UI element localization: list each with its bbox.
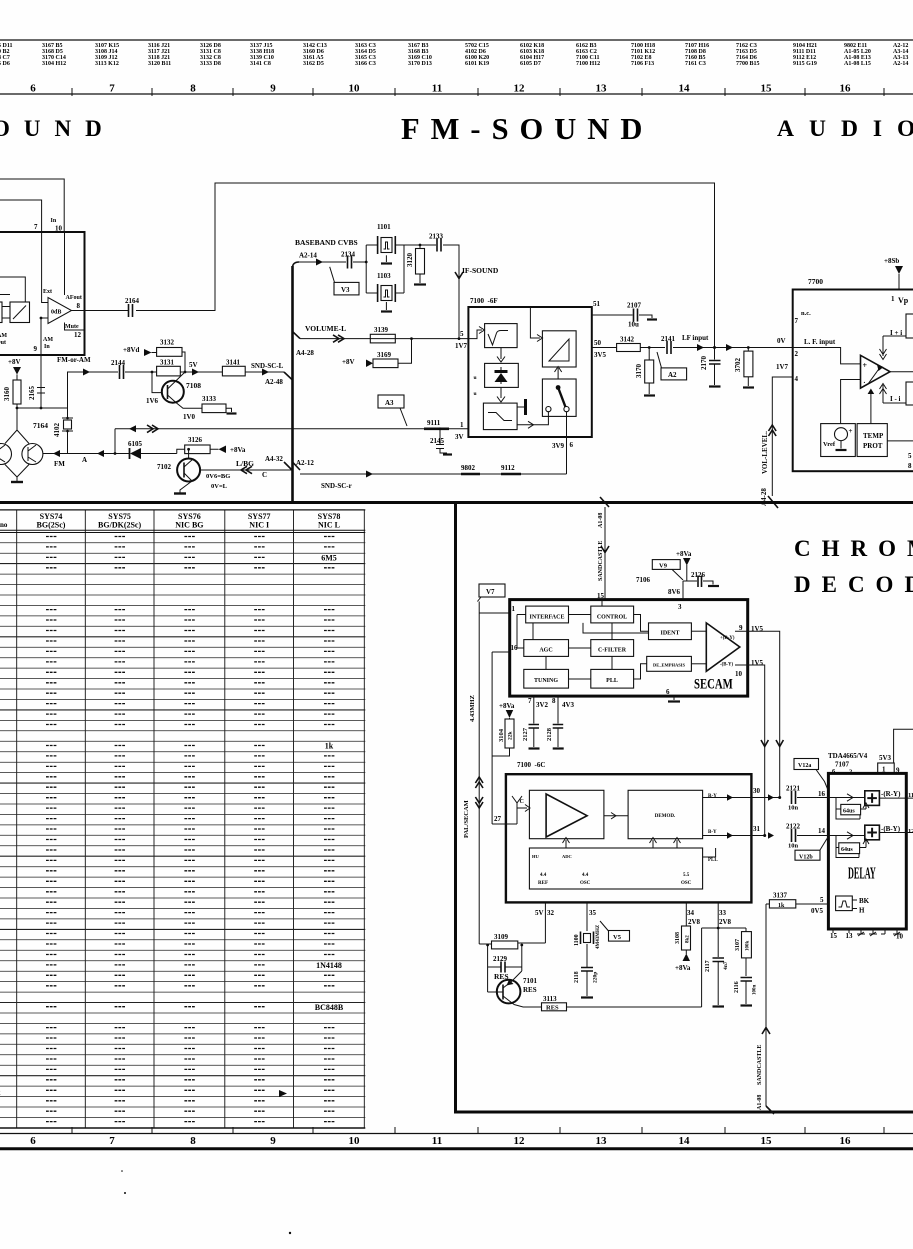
svg-text:DECODER: DECODER [794,572,913,597]
svg-text:7: 7 [34,223,38,231]
Mute pin 12 [65,323,85,331]
IC 7100 -6F sound processor [468,307,591,437]
svg-text:5: 5 [460,330,464,338]
svg-text:A2-48: A2-48 [265,378,283,386]
svg-text:3108: 3108 [675,932,681,944]
svg-text:2170: 2170 [700,356,708,371]
demod block [628,790,703,838]
bottom ruler [0,1127,913,1149]
flag V9 [652,560,680,570]
svg-text:+8Va: +8Va [675,964,691,972]
svg-text:6: 6 [666,688,670,696]
svg-text:11: 11 [432,83,442,95]
svg-text:100n: 100n [753,985,758,996]
chroma amp block [529,790,604,838]
svg-text:4: 4 [795,375,799,383]
svg-text:V9: V9 [659,563,668,570]
svg-text:3104 H12: 3104 H12 [42,61,66,67]
svg-text:2145: 2145 [430,437,445,445]
svg-text:50: 50 [594,339,602,347]
svg-text:VOL-LEVEL.: VOL-LEVEL. [761,431,769,474]
crystal 4102 [67,408,69,454]
svg-text:7102: 7102 [157,463,172,471]
wire to SECAM pin 1 [479,612,510,614]
svg-text:3169: 3169 [377,351,392,359]
svg-text:10: 10 [349,1135,361,1147]
switch block [542,379,576,416]
svg-text:V5: V5 [613,934,622,941]
svg-text:A2-14: A2-14 [299,252,317,260]
resistor 3170 [648,348,650,361]
resistor 3120 [419,245,421,283]
svg-text:8: 8 [190,83,196,95]
svg-text:11: 11 [432,1135,442,1147]
svg-text:15: 15 [761,1135,773,1147]
svg-text:SANDCASTLE: SANDCASTLE [598,541,604,581]
svg-text:HU: HU [532,854,540,859]
signal bus A2/A4 [291,266,294,502]
svg-text:3109: 3109 [494,933,509,941]
svg-text:RES: RES [523,986,537,994]
svg-text:L/BG: L/BG [236,459,254,468]
svg-text:4n7: 4n7 [723,961,729,970]
IC 7100 -6C chroma processor [506,774,752,902]
svg-text:12: 12 [514,83,526,95]
node junction to 9111 line [114,429,116,454]
svg-text:Vref: Vref [823,441,836,448]
svg-text:DEMOD.: DEMOD. [655,814,676,819]
svg-text:3V9: 3V9 [552,442,565,450]
TUNING block [524,669,569,688]
svg-text:+8V: +8V [342,358,355,366]
INTERFACE block [526,606,569,623]
svg-text:3170 D13: 3170 D13 [408,61,432,67]
svg-text:+8Sb: +8Sb [884,257,899,265]
svg-text:3162 D5: 3162 D5 [303,61,324,67]
svg-text:SECAM: SECAM [694,676,733,692]
wire from slope block top [0,277,25,302]
svg-text:SND-SC-L: SND-SC-L [251,362,284,370]
svg-text:A2: A2 [668,371,677,379]
svg-text:12: 12 [74,331,82,339]
IC SECAM decoder [510,600,748,697]
svg-text:DE_EMPHASIS: DE_EMPHASIS [653,663,686,668]
de-emphasis block [500,387,502,398]
flag V5 [609,931,630,942]
AM In input wire pin 9 [41,318,48,408]
svg-text:OSC: OSC [580,881,591,886]
svg-text:BC848B: BC848B [315,1003,344,1012]
section divider line [0,501,913,504]
svg-text:FM-or-AM: FM-or-AM [57,356,91,364]
op-amp 0dB triangle [48,298,72,324]
svg-text:V3: V3 [341,286,350,294]
svg-text:7: 7 [795,317,799,325]
svg-text:FM: FM [54,460,65,468]
svg-text:3141: 3141 [226,359,241,367]
svg-text:R-Y: R-Y [708,794,717,799]
svg-text:27: 27 [494,815,502,823]
svg-text:+8Va: +8Va [676,550,692,558]
IC 7700 audio amplifier [793,290,913,472]
VOL-LEVEL line A4-28 [772,377,792,496]
svg-text:no: no [0,521,8,529]
svg-text:10: 10 [349,83,361,95]
IDENT block [649,623,692,640]
svg-text:TDA4665/V4: TDA4665/V4 [828,752,868,760]
wire to 2133 [404,244,436,246]
SECAM output amp [706,623,740,671]
CONTROL block [591,606,634,623]
demod diode block [500,348,502,359]
C-FILTER block [591,640,634,657]
svg-text:PAL/SECAM: PAL/SECAM [463,800,470,838]
svg-text:7161 C3: 7161 C3 [685,61,706,67]
svg-text:A2-12: A2-12 [296,459,314,467]
svg-text:A1-08: A1-08 [598,513,604,528]
svg-text:6M5: 6M5 [321,553,337,562]
svg-text:220p: 220p [593,972,599,983]
ref/osc block [529,848,702,889]
resistor 3107 100k [702,928,746,932]
svg-text:1k: 1k [325,742,334,751]
svg-text:1: 1 [891,295,895,303]
svg-text:8: 8 [190,1135,196,1147]
svg-text:1V0: 1V0 [183,413,196,421]
chroma section border [454,503,913,1114]
svg-text:3170: 3170 [635,364,643,379]
wire from junction [68,372,119,408]
transistor 7101 RES [497,980,521,1004]
svg-text:OUND: OUND [0,116,116,141]
svg-text:7106 F13: 7106 F13 [631,61,654,67]
adder R-Y [828,797,864,799]
flag V12b [795,850,820,860]
svg-text:IF-SOUND: IF-SOUND [462,266,499,275]
svg-text:14: 14 [818,827,826,835]
svg-text:4V3: 4V3 [562,701,575,709]
svg-text:BK: BK [859,897,870,905]
svg-text:V12a: V12a [798,763,811,769]
svg-text:6105: 6105 [128,440,143,448]
svg-text:+8Va: +8Va [499,702,515,710]
svg-text:4M43MHZ: 4M43MHZ [596,924,601,949]
svg-text:4102: 4102 [53,423,61,438]
svg-text:7107: 7107 [835,761,850,769]
svg-text:8: 8 [77,302,81,310]
delay line 64us [841,804,861,814]
svg-text:RES: RES [546,1005,559,1012]
svg-text:6: 6 [30,83,36,95]
power +8Va [219,446,227,454]
svg-text:AFout: AFout [66,295,82,301]
svg-text:2107: 2107 [627,302,642,310]
svg-text:2141: 2141 [661,335,676,343]
svg-text:3139: 3139 [374,326,389,334]
svg-text:ADC: ADC [562,854,572,859]
svg-text:14: 14 [679,83,691,95]
svg-text:-(B-Y): -(B-Y) [720,663,733,668]
svg-text:9111: 9111 [427,419,441,427]
top feed wire [530,307,540,338]
wire 9111 line [115,428,468,430]
svg-text:13: 13 [596,83,608,95]
svg-text:12: 12 [514,1135,526,1147]
svg-text:I - i: I - i [890,395,901,403]
svg-text:1V7: 1V7 [455,342,468,350]
PLL block [591,669,634,688]
svg-text:3166 C3: 3166 C3 [355,61,376,67]
svg-text:REF: REF [538,881,548,886]
svg-text:10n: 10n [788,843,799,850]
svg-text:2165: 2165 [28,386,36,401]
capacitor 2165 [37,355,45,408]
svg-text:3126: 3126 [188,436,203,444]
svg-text:1: 1 [460,421,464,429]
svg-text:3120: 3120 [406,253,414,268]
ground of 7164 [11,481,23,483]
system comparison table [0,510,365,1128]
svg-text:FM-SOUND: FM-SOUND [401,112,653,146]
svg-text:-(R-Y): -(R-Y) [881,790,901,798]
TEMP PROT block [857,424,887,457]
internal Ext wire [42,232,48,303]
svg-text:3137: 3137 [773,892,788,900]
svg-text:0V: 0V [777,337,786,345]
svg-text:51: 51 [593,300,601,308]
svg-text:3104: 3104 [498,728,505,742]
svg-text:0V=L: 0V=L [211,483,228,490]
svg-text:BG(2Sc): BG(2Sc) [37,521,66,530]
svg-text:8: 8 [908,462,912,470]
svg-text:u: u [474,375,477,381]
svg-text:3702: 3702 [734,358,742,373]
svg-text:C: C [520,799,524,805]
link 9802 [461,473,480,476]
transistor 7108 [152,372,162,393]
svg-text:B-Y: B-Y [708,830,717,835]
component location index header [0,40,913,67]
svg-text:A1-08: A1-08 [757,1095,763,1110]
svg-text:-(B-Y): -(B-Y) [881,825,901,833]
svg-text:64us: 64us [841,847,853,853]
svg-text:3160: 3160 [3,387,11,402]
sandcastle line A1-08 [765,904,767,1106]
svg-text:5V: 5V [189,361,198,369]
svg-text:7: 7 [109,1135,115,1147]
svg-text:1V7: 1V7 [776,363,789,371]
svg-text:IDENT: IDENT [660,631,679,637]
svg-text:34: 34 [687,909,695,917]
svg-text:+: + [863,361,868,370]
svg-text:8k2: 8k2 [686,935,691,943]
svg-text:16: 16 [840,1135,852,1147]
bandpass block [485,324,517,348]
chroma input symbol [512,796,522,813]
svg-text:13: 13 [846,932,854,940]
svg-text:3132: 3132 [160,339,175,347]
svg-text:12: 12 [908,828,913,835]
svg-text:8V6: 8V6 [668,588,681,596]
capacitor 2170 [714,348,716,386]
IF-SOUND arrow [455,272,463,279]
svg-text:9112: 9112 [501,464,515,472]
svg-text:10u: 10u [628,321,639,329]
svg-text:9: 9 [270,83,276,95]
svg-text:AM: AM [43,337,53,343]
svg-text:2116: 2116 [734,981,740,993]
svg-text:C-FILTER: C-FILTER [598,648,627,654]
AGC block [524,640,569,657]
svg-text:10: 10 [735,670,743,678]
svg-text:5: 5 [908,452,912,460]
svg-text:4.4: 4.4 [540,873,547,878]
top ruler [0,83,913,97]
svg-text:PLL: PLL [606,678,618,684]
svg-text:14: 14 [679,1135,691,1147]
svg-text:7700 B15: 7700 B15 [736,61,760,67]
svg-text:1V5: 1V5 [751,659,764,667]
svg-text:3113: 3113 [543,995,557,1003]
svg-text:+: + [849,427,853,435]
svg-text:1N4148: 1N4148 [316,961,342,970]
flag A3 [378,395,404,408]
svg-text:1V5: 1V5 [751,625,764,633]
internal AFout wire [64,232,66,295]
burst key block at pin 5 [836,896,853,911]
flag V3 [330,267,335,283]
svg-text:NIC L: NIC L [318,521,340,530]
svg-text:2V8: 2V8 [719,918,732,926]
svg-text:u: u [474,391,477,397]
svg-text:0dB: 0dB [51,310,61,316]
svg-text:NIC I: NIC I [249,521,269,530]
svg-text:INTERFACE: INTERFACE [530,615,565,621]
resistor 3702 [747,346,750,349]
svg-text:3107: 3107 [735,939,741,951]
wire to pin 7 [0,200,42,232]
capacitor 2129 RES [488,945,522,992]
svg-text:35: 35 [589,909,597,917]
svg-text:+8Va: +8Va [230,446,246,454]
svg-text:In: In [44,344,50,350]
resonator box (cut) [0,302,2,323]
svg-text:7164: 7164 [33,421,48,430]
svg-text:15: 15 [761,83,773,95]
svg-text:1: 1 [512,605,516,613]
svg-text:2118: 2118 [574,971,580,983]
svg-text:A1-08 L15: A1-08 L15 [844,61,871,67]
svg-text:BASEBAND CVBS: BASEBAND CVBS [295,238,358,247]
svg-text:In: In [51,218,57,224]
svg-text:7100 -6C: 7100 -6C [517,761,545,769]
capacitor 2145 [436,429,447,453]
svg-text:2117: 2117 [705,960,711,972]
svg-text:6: 6 [570,441,574,449]
FM wire [43,453,177,455]
svg-text:1100: 1100 [574,934,580,946]
svg-text:3120 B11: 3120 B11 [148,61,171,67]
svg-text:AM: AM [0,333,7,339]
flag A2 [657,352,662,368]
wire to pin 10 [0,179,64,232]
svg-text:9: 9 [34,345,38,353]
PAL/SECAM 4.43MHZ wire [478,602,480,945]
svg-text:8: 8 [552,697,556,705]
output amp block [542,331,576,367]
svg-text:0V6=BG: 0V6=BG [206,473,230,480]
resistor 3160 [13,380,21,404]
adder B-Y [828,835,864,837]
svg-text:V12b: V12b [799,855,813,861]
svg-text:31: 31 [753,825,761,833]
svg-text:3113 K12: 3113 K12 [95,61,119,67]
svg-text:+8V: +8V [8,358,21,366]
svg-text:7: 7 [109,83,115,95]
svg-text:2121: 2121 [786,785,801,793]
svg-text:+(R-Y): +(R-Y) [720,636,735,641]
svg-text:3V2: 3V2 [536,701,549,709]
svg-text:10n: 10n [788,805,799,812]
svg-text:3165 D6: 3165 D6 [0,61,10,67]
de-emphasis to switch wire [517,412,548,425]
svg-text:9802: 9802 [461,464,476,472]
table marker arrow [279,1090,287,1097]
op-amp IC box FM-or-AM [0,232,85,355]
svg-text:3V: 3V [455,433,464,441]
svg-text:Vp: Vp [898,296,909,305]
svg-text:DELAY: DELAY [848,863,876,882]
svg-text:16: 16 [511,644,519,652]
svg-text:2164: 2164 [125,297,140,305]
svg-text:13: 13 [596,1135,608,1147]
svg-text:2: 2 [795,350,799,358]
svg-text:100k: 100k [746,941,751,952]
svg-text:5V3: 5V3 [879,754,892,762]
svg-text:6105 D7: 6105 D7 [520,61,541,67]
svg-text:A: A [82,456,87,464]
svg-text:V7: V7 [486,588,495,596]
capacitor 2116 [741,978,753,982]
svg-text:AUDIO: AUDIO [777,116,913,142]
svg-text:16: 16 [818,790,826,798]
svg-text:7: 7 [528,697,532,705]
svg-text:C: C [262,471,267,479]
svg-text:7700: 7700 [808,277,823,286]
svg-text:15: 15 [597,592,605,600]
svg-text:BG/DK(2Sc): BG/DK(2Sc) [98,521,141,530]
svg-text:11: 11 [908,792,913,799]
flag V12a [794,759,819,770]
svg-text:22k: 22k [508,731,514,741]
svg-text:5: 5 [820,896,824,904]
svg-text:VOLUME-L: VOLUME-L [305,324,346,333]
junction wire [17,407,68,409]
svg-text:3133 D8: 3133 D8 [200,61,221,67]
capacitor 2118 [581,968,593,972]
svg-text:1V6: 1V6 [146,397,159,405]
scan specks [124,1192,126,1194]
svg-text:OSC: OSC [681,881,692,886]
svg-text:32: 32 [547,909,555,917]
svg-text:A2-14: A2-14 [893,61,908,67]
svg-text:15: 15 [830,932,838,940]
svg-text:1k: 1k [778,903,785,909]
svg-text:L. F. input: L. F. input [804,338,836,346]
svg-text:CHROMA: CHROMA [794,536,913,561]
svg-text:.: . [864,377,866,385]
svg-text:+8Vd: +8Vd [123,346,140,354]
